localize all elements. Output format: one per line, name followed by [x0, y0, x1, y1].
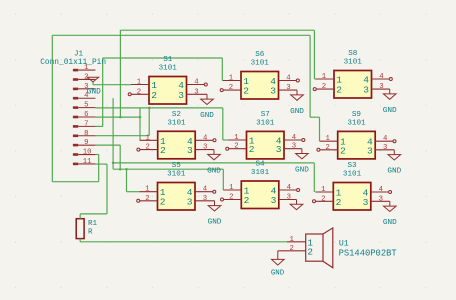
svg-text:R: R — [88, 228, 93, 236]
IC S1 pin 4 (open) — [187, 84, 205, 86]
IC S6 pin 1 — [223, 80, 241, 82]
svg-text:11: 11 — [83, 158, 92, 166]
svg-text:1: 1 — [326, 135, 331, 143]
svg-text:2: 2 — [137, 88, 141, 96]
wire pin9 drop — [119, 145, 121, 169]
svg-text:S8: S8 — [348, 50, 358, 58]
svg-text:1: 1 — [322, 73, 327, 81]
IC S4 body — [241, 181, 278, 209]
svg-text:1: 1 — [137, 79, 142, 87]
svg-text:1: 1 — [229, 184, 234, 192]
IC S5 pin 4 (open) — [195, 191, 213, 193]
wire R1 top link — [80, 213, 107, 215]
svg-text:2: 2 — [243, 86, 249, 97]
IC S9 pin 1 — [320, 140, 338, 142]
connector J1 pin 5 — [73, 106, 78, 109]
IC S7 pin 2 (open) — [229, 148, 247, 150]
junction bus B / S5 drop — [125, 168, 128, 171]
junction pin8 riser — [148, 107, 151, 110]
svg-text:4: 4 — [292, 134, 297, 142]
svg-text:3: 3 — [379, 83, 383, 91]
svg-text:1: 1 — [145, 186, 150, 194]
svg-text:1: 1 — [234, 134, 239, 142]
IC S9 body — [338, 131, 376, 159]
svg-text:GND: GND — [271, 269, 285, 277]
svg-text:2: 2 — [336, 85, 342, 96]
svg-text:S3: S3 — [347, 162, 357, 170]
wire drop to S4.1 — [222, 169, 224, 190]
wire feeder S6.1 — [221, 80, 224, 82]
IC S3 pin 2 (open) — [315, 200, 333, 202]
IC S5 body — [158, 183, 196, 211]
wire S8-net drop — [119, 30, 121, 117]
svg-text:GND: GND — [387, 168, 401, 176]
svg-text:2: 2 — [307, 246, 313, 257]
svg-text:3: 3 — [203, 144, 207, 152]
svg-text:2: 2 — [160, 145, 166, 156]
resistor R1 leads — [79, 214, 81, 219]
svg-text:3: 3 — [187, 196, 193, 207]
wire pin10 drop — [98, 155, 100, 182]
IC S3 pin 1 — [315, 191, 333, 193]
buzzer U1 body — [306, 234, 323, 261]
svg-text:3101: 3101 — [167, 119, 186, 127]
svg-text:PS1440P02BT: PS1440P02BT — [339, 248, 397, 258]
svg-text:2: 2 — [340, 145, 346, 156]
wire pin6 row — [95, 116, 140, 118]
IC S6 body — [241, 72, 279, 100]
wire feeder S7.1 — [223, 139, 229, 141]
IC S8 pin 2 (open) — [316, 88, 334, 90]
svg-text:S6: S6 — [255, 51, 265, 59]
IC S6 pin 2 (open) — [223, 89, 241, 91]
svg-text:3: 3 — [203, 195, 207, 203]
svg-text:1: 1 — [229, 75, 234, 83]
wire net S9 top run — [52, 34, 310, 36]
IC S4 pin 4 (open) — [279, 189, 297, 191]
svg-text:3101: 3101 — [251, 169, 270, 177]
wire pin8 row — [95, 135, 149, 137]
junction pin6 row — [139, 116, 142, 119]
wire pin10 left riser — [51, 35, 53, 181]
IC S1 body — [149, 77, 187, 105]
svg-text:2: 2 — [229, 84, 233, 92]
svg-text:3: 3 — [363, 85, 369, 96]
svg-text:3: 3 — [270, 86, 276, 97]
connector J1 pin 3 — [73, 88, 78, 91]
IC S7 pin 4 (open) — [284, 139, 302, 141]
connector J1 pin 10 — [73, 153, 78, 156]
IC S9 pin 2 (open) — [320, 149, 338, 151]
svg-text:1: 1 — [321, 186, 326, 194]
IC S7 body — [247, 131, 285, 159]
svg-text:GND: GND — [383, 219, 397, 227]
wire feeder S5.1 — [127, 191, 140, 193]
svg-text:4: 4 — [194, 79, 199, 87]
svg-text:3: 3 — [287, 194, 291, 202]
IC S5 pin 1 — [140, 191, 158, 193]
svg-text:S1: S1 — [163, 56, 173, 64]
svg-text:3: 3 — [178, 90, 184, 101]
svg-text:3101: 3101 — [251, 60, 270, 68]
wire pin7 riser to S6 — [102, 58, 104, 127]
buzzer U1 pin 1 — [287, 241, 306, 243]
junction pin9/bus B — [119, 168, 122, 171]
svg-text:1: 1 — [146, 134, 151, 142]
svg-text:6: 6 — [84, 111, 88, 119]
ground symbol for S5 pin 3 — [195, 200, 215, 202]
wire pin8 riser — [148, 108, 150, 136]
connector J1 pin 11 — [73, 163, 78, 166]
IC S3 pin 4 (open) — [371, 191, 389, 193]
svg-text:1: 1 — [290, 236, 295, 244]
svg-text:GND: GND — [208, 219, 222, 227]
ground symbol for S2 pin 3 — [195, 149, 214, 151]
IC S6 pin 4 (open) — [279, 80, 297, 82]
connector J1 pin 2 — [73, 78, 78, 81]
svg-text:2: 2 — [326, 144, 330, 152]
svg-text:10: 10 — [83, 149, 92, 157]
svg-text:4: 4 — [379, 186, 384, 194]
power symbol on J1 pin 2 — [87, 77, 98, 82]
svg-text:9: 9 — [84, 139, 88, 147]
wire pin10 row — [95, 154, 98, 156]
svg-text:2: 2 — [336, 197, 342, 208]
svg-text:3101: 3101 — [343, 171, 362, 179]
svg-text:3101: 3101 — [167, 171, 186, 179]
connector J1 pin 9 — [73, 144, 78, 147]
svg-text:GND: GND — [290, 108, 304, 116]
svg-text:2: 2 — [290, 245, 294, 253]
svg-text:1: 1 — [84, 64, 89, 72]
wire drop to S5.1 — [126, 169, 128, 192]
wire drop to S2.1 — [139, 108, 141, 140]
ground symbol for S8 pin 3 — [372, 88, 390, 90]
svg-text:S5: S5 — [172, 162, 182, 170]
IC S2 pin 4 (open) — [195, 139, 213, 141]
IC S2 body — [158, 131, 196, 159]
svg-text:5: 5 — [84, 102, 88, 110]
ground symbol for S3 pin 3 — [371, 200, 390, 202]
svg-text:2: 2 — [249, 144, 255, 155]
svg-text:2: 2 — [145, 195, 149, 203]
connector J1 pin 1 — [73, 69, 78, 72]
wire R1 to U1.1 — [80, 241, 287, 243]
wire drop to S6.1 — [221, 58, 223, 81]
svg-text:GND: GND — [383, 107, 397, 115]
ground symbol for S4 pin 3 — [279, 199, 297, 201]
svg-text:3: 3 — [271, 195, 277, 206]
svg-text:4: 4 — [203, 134, 208, 142]
svg-text:3: 3 — [286, 84, 290, 92]
ground symbol for S6 pin 3 — [279, 89, 298, 91]
IC S8 pin 1 — [316, 78, 334, 80]
wire drop to S7.1 — [222, 108, 224, 140]
svg-text:3: 3 — [379, 195, 383, 203]
svg-text:7: 7 — [84, 120, 88, 128]
wire drop to S9.1 — [319, 117, 321, 141]
svg-text:3: 3 — [292, 143, 296, 151]
svg-text:3: 3 — [367, 145, 373, 156]
IC S3 body — [333, 183, 371, 211]
svg-text:S7: S7 — [261, 111, 270, 119]
IC S8 body — [334, 71, 372, 99]
wire S9-net drop — [309, 35, 311, 117]
svg-text:2: 2 — [151, 90, 157, 101]
wire pin5 row to S2/S7 — [95, 107, 222, 109]
svg-text:2: 2 — [322, 83, 326, 91]
svg-text:R1: R1 — [88, 220, 98, 228]
IC S4 pin 2 (open) — [223, 199, 241, 201]
IC S1 pin 1 — [131, 84, 149, 86]
wire drop to S3.1 — [313, 163, 315, 192]
svg-text:4: 4 — [286, 75, 291, 83]
svg-text:3: 3 — [276, 144, 282, 155]
svg-text:4: 4 — [379, 73, 384, 81]
svg-text:2: 2 — [321, 195, 325, 203]
svg-text:GND: GND — [207, 167, 221, 175]
wire pin10 loop bottom — [52, 181, 98, 183]
connector J1 pin 8 — [73, 135, 78, 138]
ground symbol for S9 pin 3 — [375, 149, 394, 151]
svg-text:2: 2 — [244, 195, 250, 206]
svg-text:3: 3 — [187, 145, 193, 156]
IC S4 pin 1 — [223, 189, 241, 191]
IC S8 pin 4 (open) — [372, 78, 390, 80]
wire J1.2 to S1.1 — [93, 84, 131, 86]
svg-text:3101: 3101 — [347, 120, 366, 128]
wire net A to S3.1 — [113, 162, 314, 164]
svg-text:3101: 3101 — [159, 65, 178, 73]
connector J1 pin 7 — [73, 125, 78, 128]
svg-text:GND: GND — [295, 167, 309, 175]
svg-text:3: 3 — [363, 197, 369, 208]
svg-text:Conn_01x11_Pin: Conn_01x11_Pin — [40, 58, 106, 67]
svg-text:GND: GND — [87, 89, 101, 97]
svg-text:3: 3 — [194, 88, 198, 96]
svg-text:3101: 3101 — [344, 59, 363, 67]
wire pin11 row — [95, 163, 107, 165]
wire pin9 row — [95, 144, 120, 146]
buzzer U1 pin 2 — [278, 250, 306, 252]
junction S8-net — [119, 116, 122, 119]
svg-text:S2: S2 — [172, 111, 182, 119]
svg-text:GND: GND — [200, 112, 214, 120]
wire net S8 top run — [120, 29, 314, 31]
IC S7 pin 1 — [229, 139, 247, 141]
connector J1 pin 6 — [73, 116, 78, 119]
IC S2 pin 1 — [140, 139, 158, 141]
svg-text:U1: U1 — [339, 239, 349, 248]
wire J1.2 drop — [92, 82, 94, 85]
svg-text:2: 2 — [160, 196, 166, 207]
svg-text:4: 4 — [383, 135, 388, 143]
IC S5 pin 2 (open) — [140, 200, 158, 202]
wire pin7 connector — [95, 125, 102, 127]
IC S2 pin 2 (open) — [140, 149, 158, 151]
connector J1 pin 4 — [73, 97, 78, 100]
svg-text:3101: 3101 — [256, 120, 275, 128]
wire drop to S8.1 — [313, 30, 315, 79]
wire S9 jog — [310, 116, 319, 118]
wire pin4 drop to bus B — [112, 98, 114, 169]
svg-text:8: 8 — [84, 130, 88, 138]
svg-text:S9: S9 — [352, 111, 362, 119]
ground symbol for S1 pin 3 — [187, 93, 208, 95]
IC S9 pin 4 (open) — [375, 140, 393, 142]
junction net A branch — [112, 162, 115, 165]
svg-text:S4: S4 — [255, 161, 265, 169]
svg-text:2: 2 — [146, 144, 150, 152]
resistor R1 body — [76, 219, 84, 239]
svg-text:4: 4 — [203, 186, 208, 194]
wire bus B to S5/S4 — [113, 168, 223, 170]
ground symbol for S7 pin 3 — [284, 148, 302, 150]
svg-text:2: 2 — [229, 194, 233, 202]
IC S1 pin 2 (open) — [131, 93, 149, 95]
svg-text:4: 4 — [287, 184, 292, 192]
wire net S6 run — [103, 57, 223, 59]
svg-text:3: 3 — [383, 144, 387, 152]
wire feeder S8.1 — [314, 78, 316, 80]
ground symbol for U1 pin 2 — [277, 251, 279, 260]
wire pin11 drop to R1 — [106, 164, 108, 214]
svg-text:2: 2 — [234, 143, 238, 151]
